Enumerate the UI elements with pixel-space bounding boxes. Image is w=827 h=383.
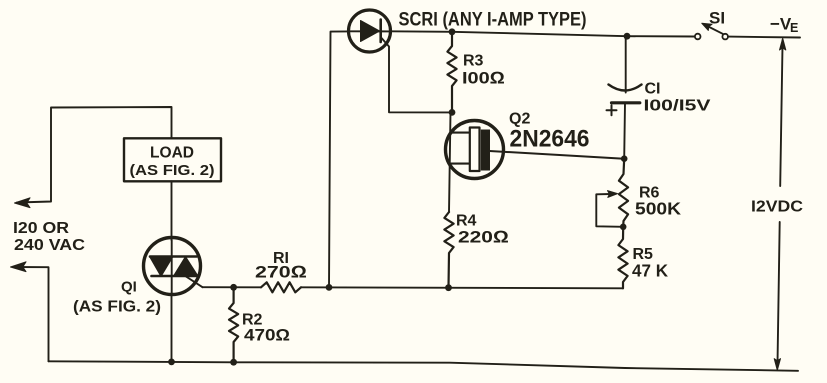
svg-text:47 K: 47 K — [632, 261, 668, 281]
triac Q1 bottom bar — [152, 275, 198, 278]
wire: SCR anode branch (vertical up) — [329, 31, 349, 287]
svg-text:LOAD: LOAD — [150, 145, 194, 162]
label R3 — [462, 53, 505, 88]
capacitor C1 bottom wire — [623, 103, 626, 159]
label Q1 — [73, 279, 161, 316]
node: emitter / C1 / R6 junction — [621, 155, 628, 162]
resistor R4 — [444, 212, 453, 288]
triac Q1 left triangle — [150, 257, 174, 277]
label R5 — [632, 246, 668, 281]
label -VE — [770, 15, 798, 36]
wire: LOAD bottom to triac Q1 top — [171, 181, 173, 240]
svg-text:I2VDC: I2VDC — [751, 199, 803, 216]
node: R4 bottom junction — [445, 284, 452, 291]
svg-text:SCRI (ANY I-AMP TYPE): SCRI (ANY I-AMP TYPE) — [399, 10, 587, 31]
SCR1 triangle — [361, 21, 380, 42]
Q2 emitter lead — [490, 151, 625, 159]
wire: R1 right to SCR-anode node and on to R4 node and R5 bottom corner — [301, 287, 623, 288]
capacitor C1 straight plate — [612, 101, 640, 104]
label 120 OR 240 VAC — [13, 220, 85, 254]
R6 wiper: bottom-to-arrow rheostat link — [596, 194, 623, 227]
node: R2 at bottom rail — [230, 359, 237, 366]
label S1 — [709, 9, 725, 28]
wire: triac Q1 bottom to bottom rail — [171, 294, 173, 362]
svg-text:220Ω: 220Ω — [458, 228, 509, 247]
wire: S1 to -VE corner — [728, 36, 800, 39]
triac Q1 internal through line — [171, 240, 173, 294]
label LOAD — [130, 145, 215, 180]
resistor R3 — [447, 32, 456, 113]
svg-text:240 VAC: 240 VAC — [14, 237, 85, 254]
svg-text:SI: SI — [709, 9, 725, 28]
node: R3 bottom / gate junction — [449, 109, 456, 116]
load box — [124, 138, 221, 181]
resistor R5 — [618, 227, 627, 288]
svg-text:R3: R3 — [463, 53, 484, 70]
12VDC dimension line (right rail) — [780, 40, 782, 186]
wire: AC terminal 1 to LOAD top (left vertical, top horizontal) — [17, 107, 172, 203]
wire: gate bus Q1 to R5 (horizontal mid wire) — [203, 286, 262, 288]
svg-text:I00/I5V: I00/I5V — [644, 98, 711, 115]
node: C1 top — [624, 33, 631, 40]
transistor Q2 (UJT 2N2646) — [446, 121, 504, 179]
svg-text:QI: QI — [121, 279, 137, 296]
node: SCR anode branch junction — [326, 284, 333, 291]
svg-text:470Ω: 470Ω — [244, 327, 290, 345]
C1 plus sign — [607, 105, 617, 115]
node: R6/R5 junction — [620, 224, 627, 231]
label C1 — [644, 81, 711, 115]
SCR1 cathode bar — [379, 20, 382, 43]
svg-text:(AS FIG. 2): (AS FIG. 2) — [130, 162, 215, 179]
Q2 base-1 stub — [451, 163, 470, 165]
node: R2 top junction — [230, 284, 237, 291]
triac Q1 — [144, 238, 201, 295]
SCR1 gate wire down to R3 node — [382, 38, 450, 112]
label Q2 — [509, 111, 590, 153]
bottom rail — [49, 361, 799, 371]
wire: UJT base bus vertical (R3 node down to R4) — [449, 112, 451, 212]
triac Q1 right triangle — [174, 257, 199, 277]
wire: AC terminal 2 down to bottom rail — [13, 267, 49, 361]
svg-text:2N2646: 2N2646 — [510, 126, 590, 153]
label R4 — [456, 213, 509, 247]
label R6 — [635, 185, 681, 219]
SCR1 through wire — [349, 30, 391, 32]
triac Q1 top bar — [150, 255, 197, 258]
triac Q1 gate lead — [186, 277, 203, 288]
R6 wiper arrowhead — [608, 191, 618, 198]
svg-text:−V: −V — [770, 15, 792, 34]
resistor R2 — [229, 287, 238, 362]
label R2 — [242, 312, 290, 345]
up arrowhead at -VE rail — [780, 38, 786, 50]
svg-text:270Ω: 270Ω — [255, 263, 307, 282]
node: R3 top — [449, 28, 456, 35]
label 12VDC — [751, 199, 803, 216]
svg-text:I20 OR: I20 OR — [13, 220, 69, 237]
SCR1 — [349, 10, 391, 52]
svg-text:(AS FIG. 2): (AS FIG. 2) — [73, 299, 161, 316]
switch S1 lever — [706, 25, 723, 33]
Q2 emitter bar (black) — [481, 130, 490, 171]
Q2 base-2 stub — [451, 132, 471, 134]
down arrowhead at bottom rail — [774, 359, 780, 371]
svg-text:E: E — [790, 21, 798, 35]
Q2 base bar (white) — [470, 128, 480, 172]
switch S1 throw contact — [722, 34, 728, 40]
resistor R1 — [261, 282, 301, 292]
svg-text:500K: 500K — [635, 199, 681, 219]
node: Q1 at bottom rail — [168, 359, 175, 366]
top rail — [391, 31, 695, 36]
label SCR1 — [399, 10, 587, 31]
svg-text:I00Ω: I00Ω — [462, 69, 505, 88]
label R1 — [255, 250, 307, 282]
svg-text:CI: CI — [645, 81, 661, 98]
arrowhead AC terminal 2 — [11, 262, 27, 272]
capacitor C1 curved plate — [609, 85, 642, 91]
switch S1 lever arrowhead — [702, 23, 712, 30]
arrowhead AC terminal 1 — [15, 198, 31, 208]
capacitor C1 branch wire (top) — [625, 36, 627, 92]
resistor R6 (pot) — [619, 159, 628, 227]
switch S1 pole contact — [695, 34, 701, 40]
